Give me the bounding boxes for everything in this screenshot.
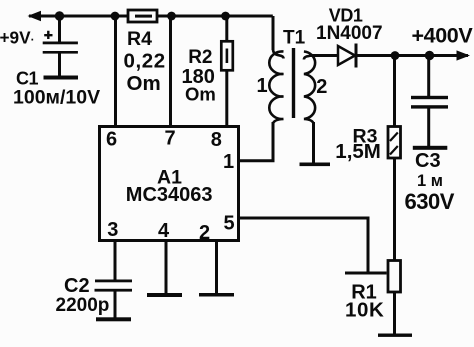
svg-text:5: 5	[224, 213, 235, 235]
transformer T1 core	[292, 48, 295, 118]
wire pin3 to C2	[114, 242, 117, 280]
transformer T1 secondary winding 2	[304, 52, 315, 125]
wire T1 secondary top to diode anode	[309, 54, 337, 57]
ground pin4	[147, 293, 182, 297]
wire pin6	[114, 16, 117, 126]
node: R2 tap junction	[221, 12, 230, 21]
svg-text:C1: C1	[16, 69, 38, 89]
svg-text:2200p: 2200p	[56, 295, 110, 316]
svg-text:7: 7	[165, 128, 176, 150]
svg-text:1: 1	[223, 151, 234, 173]
wire C3 top	[427, 56, 430, 97]
+9V input arrow	[28, 11, 42, 21]
svg-text:0,22: 0,22	[124, 49, 166, 72]
resistor R1	[388, 261, 401, 293]
resistor R3	[388, 127, 401, 159]
svg-text:Om: Om	[127, 72, 161, 95]
node: C3 tap junction	[425, 51, 434, 60]
node: R3 tap junction	[391, 51, 400, 60]
svg-text:MC34063: MC34063	[126, 184, 213, 206]
wire C1 bottom	[58, 53, 61, 76]
svg-text:100м/10V: 100м/10V	[13, 87, 100, 109]
diode VD1	[338, 46, 355, 65]
node: C1 tap junction	[55, 11, 64, 20]
wire C2 bottom	[114, 291, 117, 318]
svg-text:1,5M: 1,5M	[335, 140, 381, 163]
node: pin6 tap junction	[111, 12, 120, 21]
wire R1 bottom	[393, 292, 396, 334]
svg-text:C2: C2	[64, 275, 90, 297]
+400V output arrow	[457, 50, 471, 60]
svg-text:T1: T1	[283, 28, 306, 49]
ground T1 secondary	[300, 163, 331, 167]
wire pin2 to ground	[215, 242, 218, 293]
wire pin1 to T1 primary bottom	[240, 122, 273, 161]
svg-text:Om: Om	[185, 83, 216, 104]
svg-text:1: 1	[257, 75, 268, 97]
wire R2 top	[225, 16, 228, 41]
resistor R4	[128, 10, 157, 22]
svg-text:1N4007: 1N4007	[316, 23, 383, 44]
op-amp / IC U1 A1 MC34063 box	[100, 127, 239, 241]
transformer T1 primary winding 1	[269, 49, 283, 124]
capacitor C3	[411, 96, 448, 99]
ground R1	[378, 334, 412, 337]
wire pin4 to ground	[165, 242, 168, 293]
svg-text:8: 8	[211, 129, 222, 151]
svg-text:2: 2	[316, 76, 327, 98]
wire pin7	[169, 16, 172, 126]
svg-text:10K: 10K	[345, 299, 384, 322]
wire rail drop to T1 primary	[272, 16, 275, 50]
svg-text:+400V: +400V	[412, 24, 474, 48]
svg-text:R4: R4	[127, 28, 152, 50]
capacitor C2	[95, 280, 132, 283]
ground C3	[413, 146, 448, 150]
svg-text:630V: 630V	[405, 189, 455, 214]
svg-text:+9V·: +9V·	[0, 28, 35, 48]
ground C1	[44, 76, 79, 80]
wire C3 bottom	[427, 108, 430, 146]
wire R3 to R1	[393, 158, 396, 260]
wire top rail +9V	[29, 15, 273, 18]
svg-text:4: 4	[158, 220, 170, 242]
svg-text:1 м: 1 м	[417, 172, 443, 190]
wire pin5 feedback	[240, 218, 387, 273]
wire diode cathode to output arrow	[356, 54, 468, 57]
ground pin2	[199, 293, 234, 297]
capacitor C1 plus sign	[44, 31, 52, 39]
svg-text:R2: R2	[188, 47, 212, 68]
node: pin7 tap junction	[167, 12, 176, 21]
svg-text:C3: C3	[415, 150, 441, 172]
ground C2	[96, 317, 131, 321]
wire R3 top	[393, 56, 396, 127]
resistor R2	[221, 41, 233, 70]
wire R2 bottom to pin8	[225, 71, 228, 126]
capacitor C1	[43, 42, 78, 45]
svg-text:3: 3	[107, 219, 118, 241]
wire C1 top	[58, 16, 61, 42]
wire T1 secondary bottom to ground	[312, 122, 315, 164]
svg-text:2: 2	[199, 222, 210, 244]
svg-text:6: 6	[106, 129, 117, 151]
